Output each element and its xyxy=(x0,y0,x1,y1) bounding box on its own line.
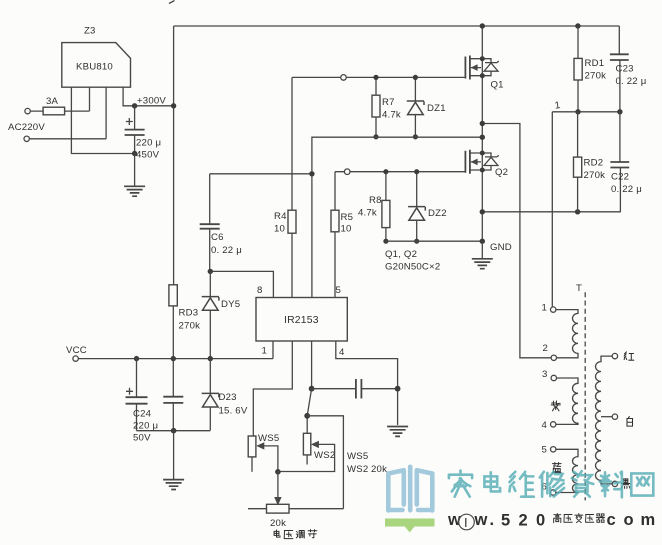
svg-text:RD1: RD1 xyxy=(585,58,605,69)
svg-text:R4: R4 xyxy=(274,211,287,222)
svg-text:WS2: WS2 xyxy=(314,450,335,461)
wire bridge pin1 to 450V line xyxy=(71,87,134,153)
terminal black xyxy=(612,479,630,488)
watermark book ribbon xyxy=(385,519,435,533)
svg-text:270k: 270k xyxy=(585,71,607,82)
terminal AC input bottom xyxy=(8,122,45,142)
svg-text:c: c xyxy=(607,511,616,529)
svg-text:C6: C6 xyxy=(211,232,224,243)
terminal white xyxy=(612,414,632,426)
svg-text:8: 8 xyxy=(257,285,263,296)
svg-text:AC220V: AC220V xyxy=(8,122,45,133)
wire C6 bottom node to IC pin8 xyxy=(208,269,274,298)
watermark circled 1 xyxy=(459,514,475,530)
svg-text:4: 4 xyxy=(339,347,345,358)
wire AC line 2 xyxy=(29,138,106,140)
primary winding 1-2 xyxy=(556,310,578,358)
wire IC pin3 to cap node xyxy=(309,341,315,392)
node +300V xyxy=(132,96,176,109)
transformer T label xyxy=(576,283,582,294)
svg-text:0. 22 μ: 0. 22 μ xyxy=(611,184,642,195)
wire IC pin5 to R5 xyxy=(334,232,336,298)
wire VCC line to IC pin1 xyxy=(78,341,273,361)
watermark chinese text xyxy=(449,471,653,498)
resistor RD1 xyxy=(574,26,606,112)
wire left vertical from top rail to RD3 xyxy=(173,26,175,285)
node half-bridge to transformer xyxy=(480,121,551,358)
svg-text:m: m xyxy=(641,511,656,529)
wire bridge pin3 to AC line xyxy=(105,87,107,139)
wire divider mid to transformer pin1 xyxy=(551,112,553,307)
zener diode DY5 bootstrap xyxy=(202,271,241,358)
potentiometer WS5 xyxy=(248,433,279,472)
svg-text:50V: 50V xyxy=(133,433,151,444)
svg-text:5: 5 xyxy=(501,512,510,530)
svg-text:w: w xyxy=(474,511,488,529)
svg-text:R5: R5 xyxy=(341,212,354,223)
svg-text:20k: 20k xyxy=(371,464,387,475)
watermark url xyxy=(447,511,655,530)
zener diode D23 15.6V xyxy=(202,359,248,431)
wiper of WS5 xyxy=(256,442,280,474)
transformer terminal 5 xyxy=(542,445,556,456)
wire IC pin2 to WS5 xyxy=(253,341,292,436)
svg-text:Q2: Q2 xyxy=(495,167,508,178)
terminal on Q2 gate line xyxy=(344,169,350,175)
svg-text:5: 5 xyxy=(336,285,342,296)
svg-text:2: 2 xyxy=(519,512,528,530)
wiper of WS2 xyxy=(278,441,335,472)
wire IC pin7 to R4 xyxy=(291,233,293,297)
svg-text:GND: GND xyxy=(490,242,512,253)
transformer terminal 1 xyxy=(542,303,556,314)
ground GND below Q2 xyxy=(472,241,512,268)
svg-text:5: 5 xyxy=(542,445,548,456)
svg-text:o: o xyxy=(624,511,634,529)
svg-text:1: 1 xyxy=(542,303,548,314)
svg-text:DZ2: DZ2 xyxy=(428,208,447,219)
ground below CT xyxy=(387,427,408,437)
op-amp/driver IC U1 IR2153 xyxy=(256,285,347,358)
node top rail Q1 xyxy=(480,23,485,28)
label high voltage transformer xyxy=(554,513,605,522)
node 1 blue mark xyxy=(554,100,561,112)
capacitor C22 xyxy=(610,112,642,212)
svg-text:C23: C23 xyxy=(616,64,634,75)
primary winding 5-6 (blue) xyxy=(556,449,578,492)
svg-text:Q1, Q2: Q1, Q2 xyxy=(385,249,417,260)
transformer terminal 6 xyxy=(542,482,556,496)
ground below bridge cap xyxy=(124,154,145,197)
svg-text:0: 0 xyxy=(536,512,545,530)
svg-text:1: 1 xyxy=(262,346,268,357)
svg-text:IR2153: IR2153 xyxy=(284,315,319,326)
svg-text:R8: R8 xyxy=(369,195,382,206)
secondary winding xyxy=(596,356,613,484)
wire divider mid line xyxy=(552,109,622,114)
svg-text:3A: 3A xyxy=(46,96,59,107)
wire Q1 drain from top rail / half-bridge vertical xyxy=(481,26,483,241)
node 450V xyxy=(132,151,137,156)
svg-text:220 μ: 220 μ xyxy=(133,421,158,432)
svg-text:DY5: DY5 xyxy=(221,299,240,310)
svg-text:0. 22 μ: 0. 22 μ xyxy=(616,76,647,87)
resistor RD2 xyxy=(574,112,606,212)
potentiometer 20k voltage adjust xyxy=(248,504,343,529)
svg-text:KBU810: KBU810 xyxy=(76,62,113,73)
svg-text:+300V: +300V xyxy=(137,96,166,107)
svg-text:I: I xyxy=(464,515,468,530)
resistor RD3 xyxy=(169,285,200,359)
capacitor C6 xyxy=(200,174,242,272)
node top rail RD1 xyxy=(575,23,580,28)
wire bridge pin2 to fuse line xyxy=(89,87,91,111)
svg-text:G20N50C×2: G20N50C×2 xyxy=(385,262,440,273)
svg-text:RD2: RD2 xyxy=(584,158,604,169)
svg-text:.: . xyxy=(490,511,495,529)
terminal red xyxy=(612,352,634,360)
zener diode DZ1 xyxy=(407,75,446,140)
svg-text:D23: D23 xyxy=(219,392,237,403)
label purple winding xyxy=(551,401,560,411)
svg-text:2: 2 xyxy=(543,343,549,354)
watermark book logo xyxy=(388,467,432,511)
svg-text:4: 4 xyxy=(542,420,548,431)
primary winding 3-4 (purple) xyxy=(556,378,578,424)
wire VCC ground return line xyxy=(137,428,211,434)
label WS5 WS2 20k xyxy=(347,451,387,475)
svg-text:WS5: WS5 xyxy=(258,433,279,444)
fuse 3A xyxy=(30,96,89,115)
terminal AC input top xyxy=(25,108,30,113)
transformer terminal 3 xyxy=(542,369,557,381)
svg-text:C22: C22 xyxy=(611,172,629,183)
svg-text:4.7k: 4.7k xyxy=(382,110,401,121)
wire IC pin4 to ground xyxy=(336,341,401,425)
secondary tap white xyxy=(601,416,612,418)
wire bridge pin4 to +300V node xyxy=(123,87,174,106)
ground below VCC filter xyxy=(163,431,184,490)
svg-text:0. 22 μ: 0. 22 μ xyxy=(211,245,242,256)
svg-text:10: 10 xyxy=(274,224,285,235)
wire half-bridge mid to IC pin6 column xyxy=(312,135,485,298)
svg-text:270k: 270k xyxy=(584,170,606,181)
svg-text:WS2: WS2 xyxy=(347,464,368,475)
svg-text:220 μ: 220 μ xyxy=(136,138,161,149)
svg-text:270k: 270k xyxy=(179,321,201,332)
transformer core dashed line xyxy=(584,292,586,500)
svg-text:RD3: RD3 xyxy=(179,308,199,319)
wire Q2 source to divider line xyxy=(480,209,621,214)
transistor Q1 xyxy=(465,56,503,91)
arrow to voltage-adjust pot xyxy=(274,472,281,506)
wire Q2 source bottom line xyxy=(386,239,485,244)
transformer terminal 2 xyxy=(543,343,557,360)
wire WS2 top node to pot line xyxy=(307,416,343,509)
capacitor C23 xyxy=(610,26,647,112)
svg-text:C24: C24 xyxy=(133,409,152,420)
resistor R7 xyxy=(372,75,401,140)
svg-text:VCC: VCC xyxy=(66,345,87,356)
label voltage adjust xyxy=(274,530,317,539)
resistor R8 xyxy=(358,169,390,244)
svg-text:1: 1 xyxy=(554,100,561,112)
capacitor VCC bypass xyxy=(163,359,183,431)
wire Q2 gate line xyxy=(335,171,465,173)
capacitor 220u 450V xyxy=(125,106,162,161)
capacitor CT timing xyxy=(312,379,398,399)
label blue winding xyxy=(552,462,561,472)
potentiometer WS2 xyxy=(303,433,335,464)
transformer terminal 4 xyxy=(542,420,556,431)
bridge rectifier Z3 KBU810 xyxy=(62,26,131,88)
transistor Q2 xyxy=(465,150,508,178)
svg-text:R7: R7 xyxy=(382,97,395,108)
svg-text:20k: 20k xyxy=(270,518,286,529)
resistor R5 xyxy=(331,172,353,235)
label Q1 Q2 type xyxy=(385,249,440,273)
wire pin3 node to WS2 top xyxy=(304,389,311,434)
svg-text:3: 3 xyxy=(542,369,548,380)
zener diode DZ2 xyxy=(408,169,447,244)
wire C6 top to pin6 column xyxy=(210,171,315,176)
svg-text:15. 6V: 15. 6V xyxy=(219,406,248,417)
svg-text:T: T xyxy=(576,283,582,294)
svg-text:Q1: Q1 xyxy=(491,80,504,91)
capacitor C24 220u 50V xyxy=(126,359,159,444)
wire Q1 gate line xyxy=(292,76,465,78)
svg-text:DZ1: DZ1 xyxy=(427,103,446,114)
resistor R4 xyxy=(274,77,296,234)
svg-text:4.7k: 4.7k xyxy=(358,208,377,219)
svg-text:Z3: Z3 xyxy=(84,26,96,37)
terminal VCC xyxy=(66,345,87,361)
svg-text:450V: 450V xyxy=(136,150,160,161)
svg-text:10: 10 xyxy=(341,224,352,235)
terminal on Q1 gate line xyxy=(341,75,347,81)
svg-text:WS5: WS5 xyxy=(347,451,368,462)
wire top +300V rail xyxy=(169,1,619,27)
